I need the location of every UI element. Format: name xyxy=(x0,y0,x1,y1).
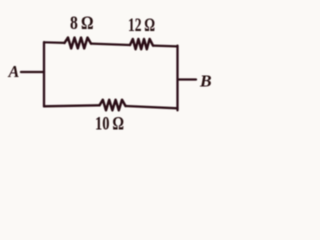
svg-text:A: A xyxy=(8,62,20,81)
wire top rail right xyxy=(153,44,178,47)
wire A lead xyxy=(21,71,44,73)
svg-text:B: B xyxy=(199,71,212,90)
resistor R3 10Ω zigzag xyxy=(100,100,126,111)
svg-text:10 Ω: 10 Ω xyxy=(95,114,124,134)
svg-text:8 Ω: 8 Ω xyxy=(70,14,94,34)
wire top rail left xyxy=(44,41,65,44)
wire bottom rail right xyxy=(126,106,178,108)
wire top rail middle xyxy=(91,44,130,45)
resistor R2 12Ω zigzag xyxy=(130,39,153,49)
wire bottom rail left xyxy=(44,105,100,106)
wire B lead xyxy=(179,78,197,80)
wire left vertical xyxy=(43,42,45,106)
wire right vertical xyxy=(176,46,178,111)
svg-text:12 Ω: 12 Ω xyxy=(128,16,155,36)
resistor R1 8Ω zigzag xyxy=(65,38,92,49)
